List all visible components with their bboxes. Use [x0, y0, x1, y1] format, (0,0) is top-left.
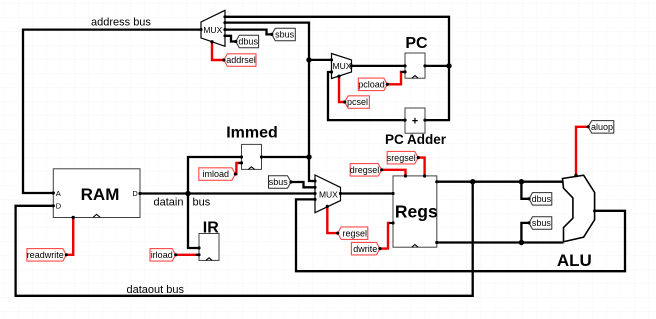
tag pcsel	[345, 96, 370, 109]
svg-text:Regs: Regs	[395, 202, 438, 222]
wire: dbus tag drop near ALU	[521, 182, 529, 199]
register IR	[196, 220, 219, 261]
tag sbus (at Regs MUX)	[269, 176, 292, 189]
red wire: dregsel to Regs select 1	[382, 170, 406, 175]
tag dbus (at address MUX)	[236, 35, 259, 48]
tag dbus (at ALU)	[529, 193, 552, 206]
red wire: pcsel to PC MUX select	[339, 76, 345, 102]
svg-text:PC Adder: PC Adder	[385, 132, 447, 147]
wire: PC Adder output up to PC MUX in2	[328, 72, 405, 120]
svg-text:dbus: dbus	[532, 194, 552, 204]
wire: PC MUX output to PC D input	[352, 65, 406, 67]
svg-text:sbus: sbus	[269, 177, 289, 187]
tag readwrite	[27, 249, 67, 262]
svg-text:A: A	[56, 189, 61, 198]
red wire: pcload to PC enable	[387, 72, 404, 84]
svg-text:sbus: sbus	[532, 218, 552, 228]
red wire: readwrite to RAM write pin	[66, 219, 73, 255]
wire: Immed input corner, vertical down to IR D input	[188, 157, 242, 248]
tag sbus (at ALU)	[529, 217, 552, 230]
red wire: irload to IR enable	[176, 254, 198, 256]
wire: MUX1 in4 to dbus tag	[225, 36, 236, 42]
red wire: aluop to ALU select	[576, 127, 588, 176]
svg-text:MUX: MUX	[319, 189, 338, 199]
tag regsel	[338, 227, 368, 240]
pin dots	[52, 15, 597, 256]
wire: address bus from MUX1 output down left side to RAM A	[23, 30, 201, 193]
svg-text:datain: datain	[154, 197, 184, 209]
wire: PC MUX in1 from sbus vertical	[309, 59, 332, 61]
svg-text:aluop: aluop	[591, 122, 613, 132]
red wire: regsel to Regs MUX select	[327, 206, 337, 233]
svg-text:dregsel: dregsel	[350, 165, 380, 175]
wire: Immed output to sbus vertical	[262, 156, 310, 158]
svg-text:readwrite: readwrite	[27, 250, 64, 260]
svg-text:imload: imload	[203, 169, 230, 179]
wire: Regs B output to ALU input B	[437, 241, 564, 243]
wire: MUX1 in2 to sbus vertical, down to Regs MUX in1	[225, 23, 315, 181]
wire: Regs A output to ALU input A	[437, 181, 564, 183]
wire: MUX1 in1 / PC loop top and right side down to PC Adder right pin	[225, 17, 449, 120]
svg-text:bus: bus	[193, 197, 211, 209]
wire: dataout bus loop from A output down, left and up to RAM D input	[16, 182, 473, 296]
svg-text:IR: IR	[203, 220, 219, 237]
mux U3 Regs MUX	[315, 175, 341, 213]
mux U2 PC MUX	[332, 54, 352, 79]
wire: sbus tag rise near ALU	[521, 223, 529, 243]
register PC	[401, 35, 429, 78]
svg-text:D: D	[132, 189, 138, 198]
svg-text:D: D	[56, 202, 62, 211]
svg-text:Immed: Immed	[226, 124, 278, 141]
wire: PC output to right bus	[425, 65, 449, 67]
tag imload	[199, 168, 236, 181]
red wire: dwrite to Regs enable	[380, 223, 390, 249]
svg-text:dbus: dbus	[238, 37, 258, 47]
mux U1 address MUX	[201, 10, 225, 46]
svg-text:+: +	[412, 115, 418, 127]
svg-text:MUX: MUX	[333, 61, 352, 71]
svg-text:pcload: pcload	[358, 80, 385, 90]
svg-text:pcsel: pcsel	[347, 97, 368, 107]
red wire: sregsel to Regs select 2	[418, 158, 424, 175]
svg-text:dataout bus: dataout bus	[127, 284, 185, 296]
tag sregsel	[387, 151, 419, 164]
tag irload	[150, 249, 176, 262]
red wire: addrsel to MUX1 select	[212, 42, 224, 60]
svg-text:sbus: sbus	[275, 30, 295, 40]
svg-text:dwrite: dwrite	[353, 244, 377, 254]
wire: ALU output loop back to Regs MUX in4	[296, 199, 625, 271]
wire: Regs MUX output to Regs input	[341, 192, 394, 194]
wire: sbus tag to Regs MUX in2	[291, 182, 315, 187]
tag pcload	[358, 78, 387, 91]
svg-text:address bus: address bus	[91, 17, 151, 29]
red wire: imload to Immed enable	[235, 163, 240, 174]
svg-text:addrsel: addrsel	[226, 55, 256, 65]
svg-text:PC: PC	[405, 35, 428, 52]
svg-text:regsel: regsel	[343, 228, 368, 238]
tag sbus (at address MUX)	[272, 28, 296, 41]
tag dregsel	[350, 164, 382, 177]
wire: datain bus from RAM D out to Regs MUX in3	[140, 192, 315, 194]
wire: MUX1 in3 to sbus tag	[225, 30, 272, 35]
register file Regs	[389, 176, 438, 247]
tag aluop	[588, 121, 614, 134]
svg-text:MUX: MUX	[203, 25, 222, 35]
ALU U6	[557, 175, 595, 270]
svg-text:RAM: RAM	[81, 185, 120, 204]
tag addrsel	[224, 54, 256, 67]
RAM U4	[53, 169, 140, 218]
svg-text:irload: irload	[151, 250, 173, 260]
svg-text:sregsel: sregsel	[387, 153, 416, 163]
svg-text:ALU: ALU	[557, 251, 592, 270]
PC Adder U5	[385, 108, 447, 147]
tag dwrite	[351, 242, 380, 255]
register Immed	[226, 124, 278, 169]
